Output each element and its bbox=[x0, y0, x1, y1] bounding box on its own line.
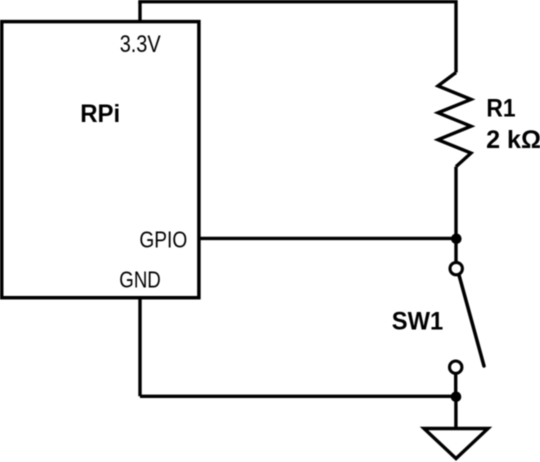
wire switch bottom lead bbox=[454, 374, 457, 397]
svg-text:GND: GND bbox=[119, 267, 161, 293]
wire ground lead bbox=[454, 397, 457, 429]
switch SW1 lever bbox=[459, 275, 484, 366]
junction GND node bbox=[451, 392, 462, 403]
wire 3.3V pin stub (vertical from RPi top edge) bbox=[138, 2, 141, 23]
svg-text:SW1: SW1 bbox=[392, 308, 443, 336]
IC RPi bbox=[2, 22, 199, 298]
wire switch top lead bbox=[454, 239, 457, 262]
svg-text:RPi: RPi bbox=[80, 100, 120, 128]
resistor R1 bbox=[438, 73, 471, 167]
wire GND pin stub (vertical from RPi bottom edge) bbox=[138, 296, 141, 396]
switch SW1 bottom terminal bbox=[450, 361, 462, 373]
svg-text:2 kΩ: 2 kΩ bbox=[486, 126, 540, 154]
wire 3.3V net (horizontal top run) bbox=[138, 0, 456, 3]
wire GPIO net (horizontal from RPi right edge) bbox=[198, 237, 457, 240]
svg-text:3.3V: 3.3V bbox=[120, 31, 161, 58]
svg-text:R1: R1 bbox=[486, 95, 515, 123]
wire GND net (horizontal bottom run) bbox=[140, 395, 456, 398]
ground bbox=[424, 429, 488, 459]
wire resistor top lead bbox=[454, 0, 457, 73]
wire resistor bottom lead bbox=[454, 167, 457, 239]
svg-text:GPIO: GPIO bbox=[139, 227, 187, 253]
junction GPIO node bbox=[451, 234, 462, 245]
switch SW1 top terminal bbox=[450, 262, 462, 274]
